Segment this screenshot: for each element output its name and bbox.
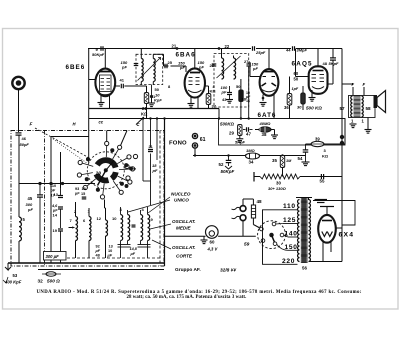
- wire coil5 bot: [18, 241, 20, 263]
- svg-text:5KpF: 5KpF: [329, 61, 340, 66]
- plug dots x342: [340, 135, 343, 138]
- IF1 can dashed box: [136, 54, 163, 84]
- tube 6AQ5 grids: [312, 74, 317, 76]
- svg-text:µF: µF: [95, 249, 101, 253]
- ground OT a: [350, 123, 357, 125]
- OT box: [349, 96, 376, 118]
- svg-text:29: 29: [229, 131, 234, 136]
- IF2 can dashed box: [214, 54, 249, 108]
- svg-text:pF: pF: [27, 207, 33, 212]
- svg-text:25: 25: [168, 60, 173, 65]
- svg-text:6BE6: 6BE6: [66, 64, 86, 71]
- wire 6BA6 grid: [171, 65, 187, 67]
- capacitor C13: [60, 188, 62, 195]
- wire 6AQ5 plate up: [317, 49, 319, 67]
- svg-text:47: 47: [246, 132, 251, 137]
- wire 6AT6 grid: [250, 76, 260, 78]
- osc coil 3a: [121, 215, 123, 241]
- wire switch right: [133, 168, 136, 170]
- dial lamp: [206, 226, 219, 239]
- pointer nucleo b: [128, 200, 170, 212]
- pointer corte: [152, 240, 171, 249]
- switch extra dots: [130, 167, 133, 170]
- ground IF1 cap: [148, 102, 155, 104]
- plug ring a: [240, 206, 246, 212]
- svg-text:pF: pF: [179, 65, 185, 70]
- svg-text:4,6: 4,6: [51, 204, 58, 208]
- tube 6X4 plate: [322, 220, 332, 222]
- svg-text:25pF: 25pF: [255, 50, 266, 55]
- svg-text:10: 10: [108, 249, 112, 253]
- wire IF2 bottom: [240, 79, 242, 90]
- node top bus junctions: [176, 48, 178, 50]
- wire C27 down: [248, 67, 250, 119]
- wire coil3 stubs: [120, 207, 122, 215]
- resistor R30k dark: [301, 93, 305, 104]
- svg-text:NUCLEO: NUCLEO: [171, 192, 191, 197]
- osc coil 6: [89, 217, 91, 241]
- wire AVC bus: [89, 118, 345, 120]
- svg-text:50: 50: [155, 87, 160, 92]
- svg-text:30: 30: [276, 181, 281, 186]
- wire 6AQ5 grid in: [295, 49, 297, 77]
- wire PT loop: [308, 197, 310, 200]
- svg-text:1MΩ: 1MΩ: [246, 148, 256, 153]
- svg-text:17: 17: [51, 194, 55, 198]
- selector dashed circle: [258, 221, 286, 249]
- tube 6BA6 envelope: [185, 68, 205, 97]
- svg-text:5KpF: 5KpF: [235, 140, 246, 145]
- svg-text:54: 54: [298, 156, 303, 161]
- selector contacts: [272, 222, 276, 226]
- svg-text:30+ 130Ω: 30+ 130Ω: [268, 186, 287, 191]
- wire IF1 coils bottom: [140, 82, 142, 85]
- svg-text:µF: µF: [107, 254, 113, 258]
- pointer nucleo a: [148, 197, 170, 213]
- svg-text:pF: pF: [121, 65, 127, 70]
- svg-text:57: 57: [340, 106, 346, 111]
- wire antenna cap down: [18, 136, 20, 218]
- svg-text:125: 125: [283, 217, 296, 224]
- tube 6BE6 cathode arc: [98, 93, 113, 95]
- svg-text:55: 55: [320, 179, 325, 184]
- svg-text:150: 150: [285, 244, 298, 251]
- OT primary coil: [351, 96, 353, 117]
- svg-text:140: 140: [285, 231, 298, 238]
- wire 6BA6 cathode: [190, 96, 192, 104]
- ground 6AQ5: [309, 97, 316, 99]
- wire 6X4 top: [326, 207, 328, 215]
- OT core hatch: [354, 95, 361, 97]
- tap 140 line: [284, 235, 288, 237]
- wire 6BE6 cathode down: [100, 96, 102, 103]
- tube 6AT6 envelope: [260, 69, 279, 96]
- svg-text:pF: pF: [252, 66, 258, 71]
- svg-text:59: 59: [244, 242, 250, 248]
- svg-text:48: 48: [96, 254, 100, 258]
- svg-text:48: 48: [323, 61, 328, 66]
- tuning dashed line F: [35, 128, 89, 158]
- tube 6AQ5 cathode arc: [312, 87, 324, 89]
- osc coil small: [106, 220, 108, 236]
- svg-text:50pF: 50pF: [20, 142, 30, 147]
- wave switch contact dots: [111, 149, 114, 152]
- wire IF1 top: [140, 49, 142, 59]
- wire F drops: [352, 87, 354, 96]
- tube 6AT6 diode dashes: [263, 76, 267, 78]
- PT top plate: [296, 197, 312, 199]
- wire bus mid: [89, 108, 219, 110]
- wire bus mid drop: [218, 109, 220, 119]
- wire coil4 stubs: [140, 210, 142, 215]
- svg-text:44: 44: [286, 48, 291, 53]
- wire 6X4 bottom leads: [322, 241, 324, 262]
- wave switch rotor ring seg2: [94, 173, 110, 183]
- svg-text:pF: pF: [50, 189, 56, 193]
- antenna: [12, 77, 24, 89]
- IF1 secondary coil: [153, 59, 155, 82]
- svg-text:58: 58: [366, 106, 372, 111]
- wire ant matrix v51: [50, 137, 52, 264]
- svg-text:46: 46: [22, 136, 27, 141]
- wire R31 down: [146, 104, 148, 119]
- capacitor C27: [246, 63, 251, 65]
- wire R30k: [302, 86, 304, 93]
- wire R35 down: [282, 168, 284, 177]
- svg-text:48: 48: [257, 199, 263, 204]
- wire plug top loop: [243, 198, 253, 200]
- core bars 4: [138, 244, 151, 246]
- switch extra contacts: [133, 154, 137, 158]
- IF2 secondary coil: [234, 58, 236, 79]
- core bars 3: [118, 244, 131, 246]
- svg-text:45: 45: [28, 196, 33, 201]
- tube 6AQ5 envelope: [309, 66, 328, 94]
- wire mid v143: [142, 119, 144, 182]
- svg-text:27: 27: [244, 59, 249, 64]
- resistor R36: [287, 94, 292, 106]
- node bus155: [194, 154, 196, 156]
- ground 6BE6 cathode: [98, 102, 105, 104]
- tuning dotted line 2: [53, 139, 88, 164]
- wire mid v150 lower: [150, 154, 152, 206]
- ground OT b: [367, 118, 369, 130]
- ground 53 arrow: [5, 263, 11, 270]
- pointer medie: [150, 224, 171, 229]
- wire 6BA6 right: [205, 85, 209, 87]
- antenna coil 5: [19, 217, 21, 241]
- wave switch center: [104, 169, 107, 172]
- svg-text:500KΩ: 500KΩ: [220, 122, 234, 127]
- svg-text:16: 16: [246, 99, 250, 103]
- svg-text:56: 56: [302, 266, 307, 271]
- svg-text:38: 38: [262, 132, 267, 137]
- wire coilsm: [105, 208, 107, 220]
- capacitor C9 50KpF: [100, 46, 102, 51]
- svg-text:500 KΩ: 500 KΩ: [306, 106, 322, 111]
- oscillator dashed bottom: [57, 257, 160, 259]
- svg-text:60: 60: [210, 240, 215, 245]
- capacitor C54: [305, 144, 307, 150]
- wire 6BE6 plate up: [104, 49, 106, 69]
- svg-text:22: 22: [225, 44, 230, 49]
- svg-text:pF: pF: [198, 65, 204, 70]
- gruppo AF dashed box: [11, 131, 164, 267]
- ground lamp: [203, 236, 205, 239]
- svg-text:28 watt; ca. 50 mA, ca. 175 mA: 28 watt; ca. 50 mA, ca. 175 mA. Potenza …: [127, 295, 247, 300]
- speaker: [374, 95, 378, 108]
- capacitor C55: [320, 174, 322, 179]
- capacitor C10KpF dot: [150, 95, 153, 98]
- PT primary coil: [298, 200, 300, 262]
- capacitor C26: [212, 63, 217, 65]
- resistor R30 zigzag: [260, 174, 300, 179]
- svg-text:18: 18: [82, 187, 86, 191]
- PT core hatch: [301, 197, 308, 199]
- capacitor C45 300pF: [39, 184, 41, 195]
- svg-text:14: 14: [53, 213, 58, 218]
- wire 6AT6 out: [273, 94, 275, 119]
- wire mid v157: [156, 119, 158, 161]
- svg-text:3MpF: 3MpF: [297, 48, 308, 53]
- capacitor osc mid: [132, 224, 136, 226]
- wave switch contacts: [105, 141, 109, 145]
- svg-text:CORTE: CORTE: [176, 254, 193, 259]
- label 300uF box: [44, 252, 67, 261]
- svg-text:35: 35: [272, 158, 277, 163]
- heater cap: [315, 199, 328, 201]
- OT secondary coil: [362, 96, 364, 117]
- svg-text:92: 92: [96, 245, 100, 249]
- ground R38: [271, 134, 278, 136]
- ground R29: [236, 138, 243, 140]
- selector rotor arm: [272, 235, 275, 242]
- svg-text:1pF: 1pF: [292, 87, 299, 91]
- wave switch spokes: [105, 146, 107, 157]
- svg-text:FONO: FONO: [169, 141, 187, 147]
- svg-text:110: 110: [283, 203, 296, 210]
- wire coil6: [88, 208, 90, 217]
- ground 6BA6: [188, 103, 195, 105]
- wire ant bus183: [19, 183, 95, 185]
- resistor R38 40M: [259, 127, 271, 132]
- capacitor IF1 left: [134, 63, 139, 65]
- wire R39 wires: [306, 143, 312, 145]
- svg-text:Gruppo AF.: Gruppo AF.: [175, 267, 201, 273]
- capacitor C18 25pF: [252, 46, 254, 51]
- wire bus155: [193, 155, 306, 157]
- wire 6BA6 plate up: [194, 49, 196, 69]
- wave switch rotor ring seg1: [110, 172, 119, 181]
- wire 6AQ5 cathode gnd: [311, 90, 313, 97]
- tube 6AT6 eyebrows: [262, 83, 267, 86]
- osc coil 3b: [128, 215, 130, 241]
- svg-text:41: 41: [120, 78, 125, 83]
- svg-text:34: 34: [249, 160, 254, 165]
- wire IF1 sec to grid: [153, 53, 163, 55]
- capacitor C18b: [82, 196, 87, 198]
- wire switch down: [104, 200, 106, 209]
- wire top bus to output: [296, 48, 342, 50]
- wire cap13 feed: [60, 152, 62, 188]
- wire 6BA6 k2: [197, 97, 199, 109]
- IF2 tuning arrow: [217, 56, 241, 78]
- svg-text:36: 36: [284, 105, 289, 110]
- svg-text:OSCILLAT.: OSCILLAT.: [172, 219, 196, 224]
- svg-text:pF: pF: [221, 90, 227, 95]
- svg-text:6BA6: 6BA6: [176, 51, 196, 58]
- svg-text:F: F: [30, 122, 33, 127]
- svg-text:6AQ5: 6AQ5: [292, 61, 313, 68]
- wire 6BE6 lead2: [109, 96, 111, 109]
- wire 6AT6 plate top: [268, 49, 270, 70]
- svg-text:50KpF: 50KpF: [92, 52, 105, 57]
- svg-text:60: 60: [294, 71, 299, 76]
- IF2 primary coil: [222, 58, 224, 79]
- tube 6BE6 grid dashes: [101, 78, 105, 80]
- capacitor C52: [228, 156, 230, 161]
- svg-text:300 µF: 300 µF: [46, 254, 60, 259]
- wire 6AT6 cathode: [262, 95, 264, 102]
- osc coil 7: [76, 217, 78, 241]
- wire switch up2: [121, 131, 128, 146]
- svg-text:21: 21: [172, 44, 177, 49]
- wave switch dashed circle: [87, 152, 124, 189]
- resistor R39 3K: [311, 141, 324, 146]
- ground C54: [302, 161, 310, 163]
- resistor R31: [144, 93, 148, 104]
- wire IF2 top: [221, 49, 223, 59]
- svg-text:µF: µF: [130, 252, 136, 256]
- wire fuse to selector: [252, 218, 254, 225]
- wire switch up1: [106, 131, 108, 142]
- jack FONO top: [192, 133, 197, 138]
- svg-text:4,3 V: 4,3 V: [207, 247, 219, 252]
- wire PT bottom: [309, 261, 343, 263]
- wire R29 gnd: [239, 136, 241, 139]
- trimmer arrow coil7: [69, 227, 75, 229]
- svg-text:6X4: 6X4: [339, 232, 355, 239]
- capacitor C48: [330, 57, 336, 59]
- wire C41 to IF1: [124, 85, 146, 87]
- wire lamp feed left: [165, 235, 206, 237]
- capacitor C19: [58, 228, 63, 230]
- svg-text:F: F: [363, 82, 366, 87]
- svg-text:93: 93: [75, 187, 79, 191]
- jack FONO bottom: [192, 143, 197, 148]
- tube 6AT6 cathode arc: [262, 90, 276, 92]
- svg-text:13: 13: [109, 245, 113, 249]
- capacitor C46 50pF: [16, 132, 22, 134]
- wire 6AQ5 screen top: [332, 49, 334, 58]
- svg-text:20: 20: [96, 171, 102, 177]
- capacitor C21 18pF: [148, 149, 153, 151]
- resistor R35: [280, 156, 284, 168]
- tube 6AQ5 plate bar: [313, 70, 324, 72]
- gruppo AF inner dashed divider: [44, 131, 46, 267]
- IF1 tuning arrow: [138, 58, 161, 81]
- wire cap to ground: [151, 98, 153, 103]
- svg-text:110: 110: [50, 184, 56, 188]
- wire C48 to tube: [332, 61, 334, 85]
- resistor R28 dark: [239, 90, 243, 102]
- PT core lines: [302, 198, 304, 264]
- capacitor C43 100pF: [229, 86, 231, 93]
- plug squiggles: [232, 207, 241, 209]
- svg-text:26: 26: [210, 63, 215, 68]
- selector box left: [263, 210, 298, 264]
- wire right vert342: [341, 49, 343, 262]
- wire 6X4 right up: [336, 227, 342, 229]
- svg-text:21: 21: [149, 145, 153, 149]
- wire bottom bus 2: [38, 269, 164, 271]
- node ant bus dots: [50, 182, 52, 184]
- wire R37 down: [208, 105, 210, 109]
- tube 6BE6 plate bar: [100, 71, 111, 73]
- wire ant matrix h136: [51, 136, 89, 138]
- svg-text:1M: 1M: [286, 159, 292, 163]
- svg-text:MEDIE: MEDIE: [176, 226, 191, 231]
- capacitor C41: [120, 84, 122, 89]
- wire coil7: [75, 202, 77, 217]
- svg-text:30: 30: [297, 105, 302, 110]
- plug ring b: [240, 215, 246, 221]
- capacitor C47: [243, 129, 246, 131]
- svg-text:500 Ω: 500 Ω: [47, 279, 60, 284]
- tube 6BA6 cathode arc: [188, 90, 202, 93]
- tube 6AT6 plate bar: [264, 71, 275, 73]
- ground 6AT6: [260, 102, 267, 104]
- wire mid v150 upper: [150, 119, 152, 148]
- svg-text:UNICO: UNICO: [174, 198, 189, 203]
- ground C43: [226, 99, 233, 101]
- tube 6BE6 grid cage: [100, 75, 112, 92]
- svg-text:50: 50: [294, 77, 299, 82]
- wire center heavy drop: [164, 119, 166, 267]
- svg-text:cc: cc: [99, 120, 104, 125]
- tap 125 line: [276, 223, 283, 226]
- svg-text:KΩ: KΩ: [210, 89, 217, 94]
- resistor R34 1M: [246, 153, 260, 159]
- capacitor C25: [164, 64, 166, 69]
- svg-text:53: 53: [13, 273, 18, 278]
- oscillator dashed box: [159, 131, 161, 267]
- tube 6BE6 envelope: [95, 69, 115, 97]
- wire 6BE6 grid left: [89, 79, 96, 81]
- wire top bus right: [256, 48, 291, 50]
- svg-text:15: 15: [81, 192, 85, 196]
- IF1 primary coil: [141, 59, 143, 82]
- svg-text:14,8: 14,8: [130, 247, 138, 251]
- wire antenna down: [18, 90, 20, 133]
- svg-text:KΩ: KΩ: [141, 112, 148, 117]
- wire lamp feed right: [218, 235, 256, 237]
- svg-text:40MΩ: 40MΩ: [259, 121, 272, 126]
- wire bus175: [300, 176, 342, 178]
- wire R36: [289, 77, 291, 94]
- detector box: [219, 119, 346, 146]
- svg-text:OSCILLAT.: OSCILLAT.: [172, 245, 196, 250]
- tap contact5 stub: [262, 241, 263, 243]
- tube 6BA6 grid dashes: [189, 77, 193, 79]
- svg-text:12: 12: [97, 216, 102, 221]
- tube 6X4 envelope: [318, 215, 336, 243]
- wire bottom bus heavy: [8, 262, 164, 264]
- svg-text:pF: pF: [152, 168, 158, 173]
- svg-text:39: 39: [315, 137, 320, 142]
- tap 150 line: [277, 244, 298, 250]
- wire 6BE6 grid drop: [88, 49, 90, 109]
